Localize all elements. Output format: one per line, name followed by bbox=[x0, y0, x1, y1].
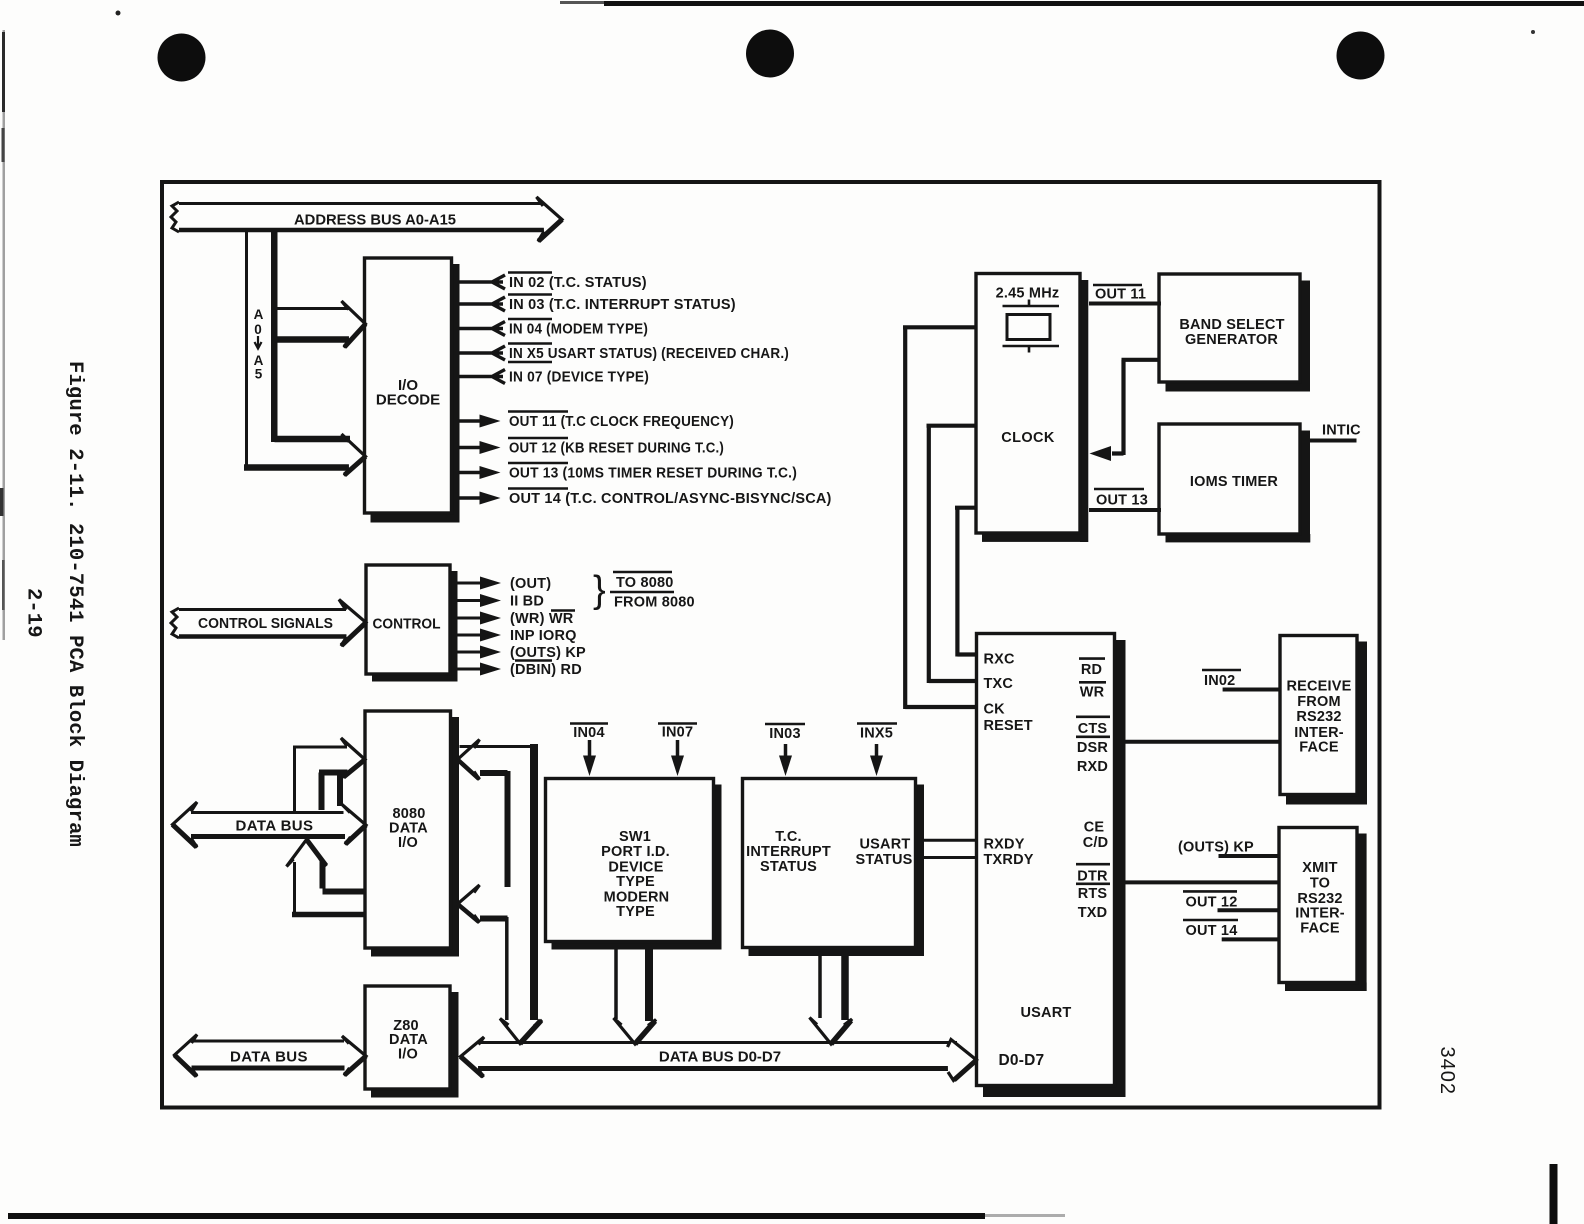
svg-text:CE: CE bbox=[1084, 820, 1105, 836]
svg-text:IN 03 (T.C. INTERRUPT STATUS): IN 03 (T.C. INTERRUPT STATUS) bbox=[509, 297, 736, 313]
svg-text:TYPE: TYPE bbox=[616, 874, 655, 890]
svg-text:XMIT: XMIT bbox=[1302, 860, 1337, 876]
svg-text:IN 02 (T.C. STATUS): IN 02 (T.C. STATUS) bbox=[509, 275, 647, 291]
svg-text:I/O: I/O bbox=[398, 835, 418, 851]
svg-text:IN 04 (MODEM TYPE): IN 04 (MODEM TYPE) bbox=[509, 322, 648, 338]
svg-text:II BD: II BD bbox=[510, 594, 544, 610]
svg-text:DSR: DSR bbox=[1077, 740, 1109, 756]
svg-text:PORT I.D.: PORT I.D. bbox=[601, 844, 670, 860]
svg-text:CLOCK: CLOCK bbox=[1001, 430, 1055, 446]
svg-text:CONTROL SIGNALS: CONTROL SIGNALS bbox=[198, 616, 333, 632]
svg-text:ADDRESS BUS A0-A15: ADDRESS BUS A0-A15 bbox=[294, 212, 456, 229]
svg-text:(OUTS) KP: (OUTS) KP bbox=[510, 645, 586, 661]
svg-text:DECODE: DECODE bbox=[376, 392, 440, 409]
svg-text:A: A bbox=[254, 307, 264, 322]
svg-text:STATUS: STATUS bbox=[760, 859, 817, 875]
svg-text:I/O: I/O bbox=[398, 1047, 418, 1063]
svg-text:IN X5 USART STATUS) (RECEIVED: IN X5 USART STATUS) (RECEIVED CHAR.) bbox=[509, 346, 789, 362]
svg-text:TYPE: TYPE bbox=[616, 904, 655, 920]
svg-text:}: } bbox=[593, 569, 606, 611]
svg-text:STATUS: STATUS bbox=[855, 852, 912, 868]
svg-text:IN04: IN04 bbox=[573, 725, 604, 741]
svg-text:DATA BUS: DATA BUS bbox=[230, 1049, 308, 1066]
svg-text:IN07: IN07 bbox=[662, 725, 693, 741]
svg-text:FACE: FACE bbox=[1299, 740, 1339, 756]
svg-text:CONTROL: CONTROL bbox=[373, 617, 441, 633]
svg-text:OUT 14 (T.C. CONTROL/ASYNC-BIS: OUT 14 (T.C. CONTROL/ASYNC-BISYNC/SCA) bbox=[509, 491, 832, 507]
svg-text:TO: TO bbox=[1310, 876, 1330, 892]
svg-text:GENERATOR: GENERATOR bbox=[1185, 332, 1278, 348]
svg-text:OUT 13 (10MS TIMER RESET DURIN: OUT 13 (10MS TIMER RESET DURING T.C.) bbox=[509, 466, 797, 482]
svg-text:OUT 11 (T.C CLOCK FREQUENCY): OUT 11 (T.C CLOCK FREQUENCY) bbox=[509, 414, 734, 430]
svg-text:2-19: 2-19 bbox=[22, 588, 45, 638]
svg-text:(DBIN) RD: (DBIN) RD bbox=[510, 662, 582, 678]
svg-text:RXC: RXC bbox=[984, 652, 1016, 668]
svg-text:0: 0 bbox=[254, 322, 262, 337]
svg-text:USART: USART bbox=[1021, 1005, 1072, 1021]
svg-text:OUT 13: OUT 13 bbox=[1096, 493, 1148, 509]
svg-text:Figure 2-11. 210-7541 PCA Blo: Figure 2-11. 210-7541 PCA Block Diagram bbox=[63, 361, 86, 847]
svg-text:IN02: IN02 bbox=[1204, 673, 1235, 689]
svg-text:RD: RD bbox=[1081, 662, 1102, 678]
svg-text:OUT 14: OUT 14 bbox=[1186, 923, 1238, 939]
svg-text:OUT 12 (KB RESET DURING T.C.): OUT 12 (KB RESET DURING T.C.) bbox=[509, 441, 724, 457]
svg-text:C/D: C/D bbox=[1083, 835, 1109, 851]
svg-text:(WR) WR: (WR) WR bbox=[510, 611, 574, 627]
svg-text:(OUT): (OUT) bbox=[510, 576, 551, 592]
svg-text:RS232: RS232 bbox=[1296, 709, 1341, 725]
svg-text:DATA BUS D0-D7: DATA BUS D0-D7 bbox=[659, 1049, 781, 1066]
svg-text:TXC: TXC bbox=[984, 676, 1014, 692]
svg-text:(OUTS) KP: (OUTS) KP bbox=[1178, 840, 1254, 856]
svg-text:3402: 3402 bbox=[1436, 1047, 1458, 1096]
svg-text:RECEIVE: RECEIVE bbox=[1286, 679, 1351, 695]
svg-text:RXDY: RXDY bbox=[984, 837, 1025, 853]
svg-text:OUT 11: OUT 11 bbox=[1095, 287, 1146, 303]
svg-text:INP IORQ: INP IORQ bbox=[510, 628, 577, 644]
svg-text:INTIC: INTIC bbox=[1322, 423, 1361, 439]
svg-text:TXD: TXD bbox=[1078, 905, 1108, 921]
svg-text:T.C.: T.C. bbox=[775, 829, 802, 845]
svg-text:TXRDY: TXRDY bbox=[984, 852, 1034, 868]
svg-text:IN03: IN03 bbox=[769, 726, 800, 742]
svg-text:DTR: DTR bbox=[1077, 869, 1108, 885]
svg-text:USART: USART bbox=[860, 837, 911, 853]
svg-text:WR: WR bbox=[1080, 685, 1105, 701]
svg-text:D0-D7: D0-D7 bbox=[999, 1052, 1045, 1069]
svg-text:INX5: INX5 bbox=[860, 726, 893, 742]
svg-text:2.45 MHz: 2.45 MHz bbox=[996, 286, 1060, 302]
svg-text:RESET: RESET bbox=[984, 718, 1033, 734]
svg-text:CK: CK bbox=[984, 702, 1006, 718]
svg-text:INTER-: INTER- bbox=[1295, 906, 1345, 922]
svg-text:INTERRUPT: INTERRUPT bbox=[746, 844, 831, 860]
svg-text:FROM 8080: FROM 8080 bbox=[614, 595, 695, 611]
svg-text:BAND SELECT: BAND SELECT bbox=[1179, 317, 1284, 333]
svg-text:DATA BUS: DATA BUS bbox=[236, 818, 314, 835]
svg-text:5: 5 bbox=[255, 367, 263, 382]
svg-text:RTS: RTS bbox=[1078, 886, 1108, 902]
svg-text:FACE: FACE bbox=[1300, 921, 1340, 937]
svg-text:TO 8080: TO 8080 bbox=[616, 575, 674, 591]
svg-text:OUT 12: OUT 12 bbox=[1186, 895, 1238, 911]
svg-text:IN 07 (DEVICE TYPE): IN 07 (DEVICE TYPE) bbox=[509, 370, 649, 386]
svg-text:FROM: FROM bbox=[1297, 694, 1341, 710]
svg-text:IOMS TIMER: IOMS TIMER bbox=[1190, 474, 1279, 490]
svg-text:CTS: CTS bbox=[1078, 721, 1108, 737]
svg-text:SW1: SW1 bbox=[619, 829, 651, 845]
svg-text:RXD: RXD bbox=[1077, 759, 1108, 775]
